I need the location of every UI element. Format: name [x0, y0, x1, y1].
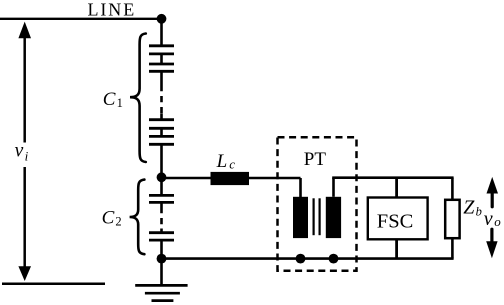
- svg-text:C: C: [102, 208, 115, 229]
- wire: node to C2 top: [160, 177, 163, 194]
- dashed wire inside C1 stack: [160, 85, 163, 114]
- svg-text:L: L: [216, 151, 228, 172]
- svg-text:PT: PT: [304, 149, 327, 170]
- ground line 2: [145, 292, 180, 295]
- svg-text:o: o: [494, 214, 501, 229]
- node: bottom junction dot: [157, 254, 167, 264]
- svg-text:v: v: [484, 208, 493, 230]
- wire: middle node to Lc: [162, 177, 212, 180]
- svg-text:i: i: [25, 148, 29, 163]
- v_o arrow upper shaft: [491, 192, 494, 207]
- v_o arrow (down head): [486, 241, 497, 258]
- transformer core line 2: [319, 198, 321, 235]
- wire: right drop to Zb: [451, 178, 454, 200]
- v_i measurement arrow (down head): [18, 266, 31, 281]
- wire: ground reference line (bottom left): [2, 282, 105, 285]
- wire: FSC bottom stub: [395, 239, 398, 259]
- capacitor C1 lower unit plate 3: [149, 135, 174, 138]
- v_i arrow shaft lower: [23, 167, 26, 268]
- svg-text:2: 2: [115, 215, 121, 229]
- node: secondary bottom dot: [329, 254, 339, 264]
- wire: C1 bottom to middle node: [160, 145, 163, 177]
- v_i measurement arrow (up head): [18, 22, 31, 39]
- burden impedance Zb: [445, 200, 459, 238]
- brace for C1: [130, 34, 146, 163]
- transformer core line 1: [313, 198, 315, 235]
- capacitor C2 upper plate 1: [149, 194, 174, 197]
- transformer PT dashed box: [278, 137, 357, 270]
- ground line 3: [152, 299, 174, 302]
- capacitor C1 upper unit plate 3: [149, 63, 174, 66]
- load box FSC: [368, 198, 428, 240]
- inductor Lc: [211, 172, 250, 185]
- wire: drop to primary winding: [299, 178, 302, 198]
- capacitor C1 lower unit plate 4: [149, 143, 174, 146]
- wire between C1 upper caps: [160, 55, 163, 64]
- node: junction dot between C1 and C2: [157, 172, 167, 182]
- wire: FSC top stub: [395, 178, 398, 198]
- capacitor C1 upper unit plate 2: [149, 53, 174, 56]
- svg-text:1: 1: [117, 96, 123, 110]
- node: junction dot on LINE: [157, 14, 167, 24]
- wire: Zb to bottom rail: [451, 238, 454, 259]
- svg-text:C: C: [103, 89, 116, 110]
- wire: Lc to PT primary: [249, 177, 301, 180]
- svg-text:Z: Z: [463, 197, 475, 219]
- v_o arrow lower shaft: [490, 229, 493, 243]
- wire: node down to ground: [160, 259, 163, 286]
- v_o arrow (up head): [487, 177, 499, 194]
- node: primary bottom dot: [296, 254, 306, 264]
- capacitor C2 upper plate 2: [149, 201, 174, 204]
- wire: secondary top riser: [332, 178, 335, 197]
- wire below C2 upper cap: [160, 203, 163, 207]
- wire below C1 upper caps: [160, 72, 163, 85]
- capacitor C1 lower unit plate 1: [149, 118, 174, 121]
- svg-text:LINE: LINE: [88, 0, 137, 20]
- svg-text:b: b: [476, 205, 482, 219]
- capacitor C1 upper unit plate 1: [149, 44, 174, 47]
- wire: LINE rail (top): [0, 18, 162, 20]
- svg-text:c: c: [229, 156, 235, 171]
- transformer secondary winding: [326, 197, 341, 238]
- brace for C2: [130, 180, 145, 255]
- svg-text:v: v: [15, 140, 24, 161]
- capacitor C1 lower unit plate 2: [149, 127, 174, 130]
- wire: bottom rail: [162, 257, 454, 260]
- capacitor C2 lower plate 1: [149, 231, 174, 234]
- capacitor C2 lower plate 2: [149, 239, 174, 242]
- transformer primary winding: [293, 197, 308, 238]
- wire above C1 lower caps: [160, 114, 163, 119]
- v_i arrow shaft upper: [23, 36, 26, 143]
- wire: C2 bottom to ground node: [160, 241, 163, 259]
- capacitor C1 upper unit plate 4: [149, 70, 174, 73]
- wire between C1 lower caps: [160, 129, 163, 136]
- wire: dot to C1 top: [160, 19, 163, 45]
- ground line 1: [135, 284, 187, 287]
- wire above C2 lower cap: [160, 229, 163, 232]
- dashed wire inside C2 stack: [160, 207, 163, 229]
- wire: secondary top rail to right: [332, 176, 453, 179]
- svg-text:FSC: FSC: [377, 211, 413, 233]
